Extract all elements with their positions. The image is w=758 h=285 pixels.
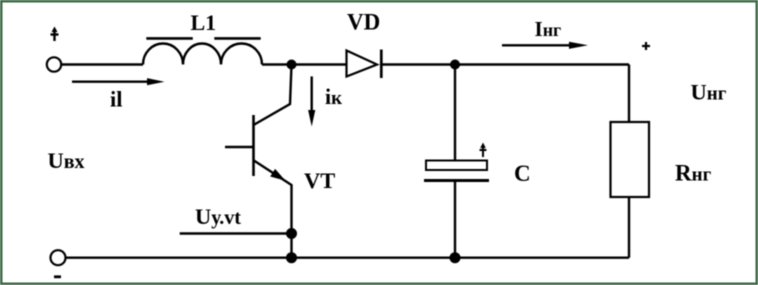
node: emitter-bottom rail junction — [286, 252, 297, 263]
transistor VT emitter wire — [254, 160, 292, 258]
node: capacitor-bottom rail junction — [450, 252, 461, 263]
wire resistor bottom to bottom rail — [628, 197, 630, 258]
node: diode-capacitor-load junction — [450, 60, 460, 70]
wire top node to capacitor — [454, 65, 456, 162]
diode VD cathode bar — [380, 50, 383, 79]
inductor core line right segment — [214, 37, 260, 40]
minus mark — [54, 275, 61, 278]
transistor VT base bar — [252, 115, 255, 176]
input terminal circle — [47, 57, 61, 71]
wire capacitor to bottom rail — [454, 181, 456, 258]
inductor L1 coil — [143, 44, 262, 65]
svg-text:iк: iк — [325, 84, 342, 109]
svg-text:Rнг: Rнг — [675, 161, 712, 186]
diode VD triangle — [347, 51, 378, 77]
svg-text:Uвх: Uвх — [48, 148, 85, 173]
svg-text:VD: VD — [347, 10, 380, 35]
capacitor polarity + mark — [480, 143, 487, 158]
current arrow Ing — [502, 42, 588, 49]
node: Uy.vt-emitter junction — [286, 228, 297, 239]
svg-text:Uнг: Uнг — [691, 80, 727, 105]
capacitor C bottom plate — [424, 179, 489, 182]
wire input to inductor — [62, 63, 144, 65]
current arrow ik — [308, 76, 315, 126]
bottom terminal circle — [51, 250, 66, 265]
wire inductor to diode — [262, 63, 347, 65]
resistor Rng rectangle — [611, 122, 650, 197]
transistor VT emitter arrowhead — [270, 169, 285, 181]
current arrow il — [72, 78, 165, 85]
inductor core line left segment — [146, 37, 193, 40]
capacitor C top plate — [426, 161, 487, 171]
svg-text:il: il — [110, 87, 123, 112]
junction node dots — [286, 60, 461, 264]
svg-text:Uу.vt: Uу.vt — [195, 204, 241, 229]
output + mark — [642, 42, 650, 50]
transistor VT collector wire — [254, 65, 292, 126]
wire right vertical to resistor top — [628, 65, 630, 123]
svg-text:C: C — [514, 161, 531, 186]
wire diode to right corner — [381, 63, 629, 65]
node: inductor-diode-collector junction — [287, 60, 297, 70]
svg-text:VT: VT — [304, 168, 335, 193]
svg-text:Iнг: Iнг — [535, 17, 562, 41]
control lead Uy.vt wire — [180, 232, 292, 234]
terminal input + mark — [51, 27, 59, 42]
transistor VT base lead — [225, 146, 254, 148]
svg-text:L1: L1 — [191, 10, 217, 35]
bottom rail wire — [66, 257, 630, 259]
